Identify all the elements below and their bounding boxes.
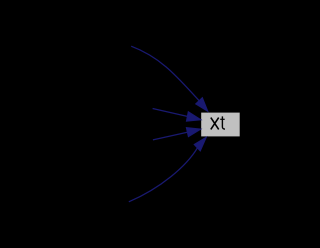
arrowhead of bottom curve	[194, 137, 207, 151]
wire: top curve shaft	[131, 46, 199, 101]
arrowhead of upper straight arrow	[186, 112, 201, 122]
node Xt (gray box)	[201, 113, 240, 137]
wire: upper straight shaft	[153, 109, 188, 117]
wire: bottom curve shaft	[129, 148, 198, 202]
wire: lower straight shaft	[153, 132, 187, 140]
edge Xt-2 to Xt (lower straight arrow)	[153, 128, 201, 140]
arrowhead of lower straight arrow	[186, 128, 201, 137]
node Xt label: letter t	[220, 116, 225, 129]
edge Xt-1 to Xt (bottom curve)	[129, 137, 207, 202]
edge Xt-3 to Xt (upper straight arrow)	[153, 109, 202, 122]
node Xt label: letter X	[211, 118, 219, 130]
arrowhead of top curve	[196, 98, 209, 112]
edge Xt-4 to Xt (top curve)	[131, 46, 208, 111]
